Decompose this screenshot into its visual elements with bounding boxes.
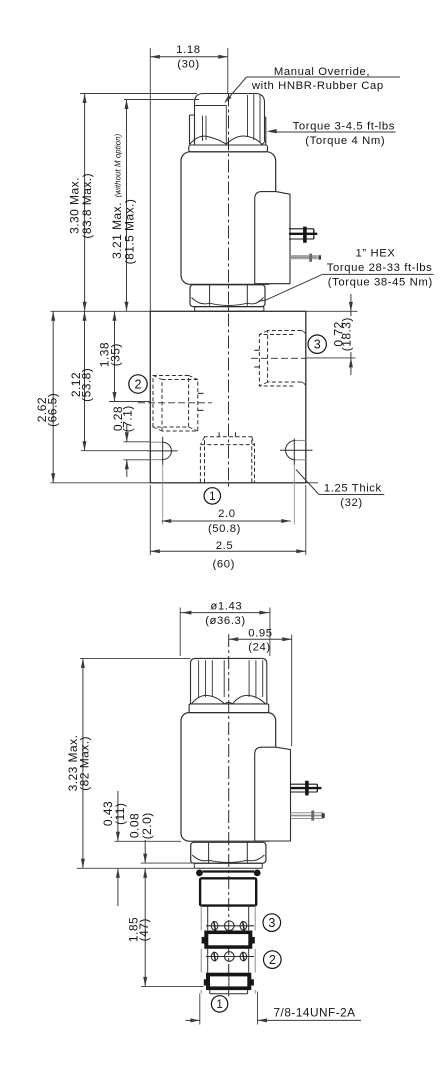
svg-text:(30): (30)	[177, 59, 200, 71]
svg-text:(35): (35)	[108, 343, 122, 366]
svg-text:1: 1	[216, 999, 222, 1011]
svg-text:(66.5): (66.5)	[46, 393, 60, 427]
svg-text:(7.1): (7.1)	[121, 405, 135, 432]
svg-text:(2.0): (2.0)	[140, 812, 154, 839]
svg-text:(24): (24)	[248, 642, 271, 654]
svg-text:0.95: 0.95	[248, 628, 272, 640]
svg-text:(47): (47)	[137, 918, 151, 941]
svg-text:(81.5 Max.): (81.5 Max.)	[123, 199, 137, 265]
svg-text:(50.8): (50.8)	[208, 523, 241, 535]
svg-text:(18.3): (18.3)	[340, 317, 354, 351]
svg-text:(82 Max.): (82 Max.)	[78, 736, 92, 791]
svg-text:Torque 28-33 ft-lbs: Torque 28-33 ft-lbs	[327, 262, 433, 274]
svg-text:ø1.43: ø1.43	[210, 601, 242, 613]
svg-text:(32): (32)	[340, 497, 363, 509]
svg-text:2.0: 2.0	[218, 508, 236, 520]
svg-text:1” HEX: 1” HEX	[356, 248, 396, 260]
svg-text:7/8-14UNF-2A: 7/8-14UNF-2A	[274, 1005, 356, 1019]
svg-text:3: 3	[268, 916, 275, 930]
svg-text:(11): (11)	[113, 803, 127, 825]
svg-text:(Torque 38-45 Nm): (Torque 38-45 Nm)	[328, 276, 433, 288]
svg-text:2: 2	[269, 953, 276, 967]
svg-text:2: 2	[135, 378, 142, 392]
svg-text:2.5: 2.5	[216, 540, 234, 552]
svg-text:(without M option): (without M option)	[114, 133, 123, 197]
svg-text:3: 3	[314, 338, 321, 352]
svg-text:Manual Override,: Manual Override,	[274, 66, 370, 78]
svg-text:Torque 3-4.5 ft-lbs: Torque 3-4.5 ft-lbs	[293, 120, 395, 132]
svg-text:1.18: 1.18	[176, 44, 200, 56]
svg-text:(Torque 4 Nm): (Torque 4 Nm)	[305, 135, 385, 147]
svg-text:with HNBR-Rubber Cap: with HNBR-Rubber Cap	[251, 80, 384, 92]
svg-text:(ø36.3): (ø36.3)	[205, 615, 246, 627]
svg-text:(60): (60)	[213, 558, 236, 570]
svg-text:(53.8): (53.8)	[80, 368, 94, 402]
svg-text:1: 1	[209, 491, 215, 503]
svg-text:(83.8 Max.): (83.8 Max.)	[80, 173, 94, 239]
svg-text:1.25 Thick: 1.25 Thick	[324, 482, 382, 494]
